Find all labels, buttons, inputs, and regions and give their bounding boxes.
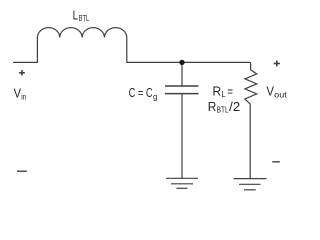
- minus sign (V_in polarity): [17, 170, 27, 172]
- svg-text:=: =: [227, 85, 233, 99]
- label R_BTL/2: [208, 100, 240, 115]
- svg-text:BTL: BTL: [217, 105, 229, 115]
- svg-text:g: g: [153, 92, 158, 102]
- plus sign (V_in polarity): [19, 70, 25, 75]
- svg-text:R: R: [208, 100, 217, 114]
- svg-text:in: in: [21, 91, 26, 101]
- inductor L_BTL: [37, 28, 126, 38]
- svg-text:out: out: [274, 89, 287, 99]
- svg-text:L: L: [221, 89, 225, 99]
- wire: resistor bottom to ground: [249, 104, 251, 178]
- plus sign (V_out polarity): [274, 61, 280, 67]
- svg-text:/2: /2: [229, 100, 240, 114]
- junction node (dot): [179, 60, 184, 65]
- svg-text:L: L: [73, 7, 79, 22]
- svg-text:BTL: BTL: [79, 13, 90, 23]
- wire: left input terminal to inductor: [13, 38, 37, 63]
- capacitor C bottom plate: [165, 93, 199, 95]
- wire: capacitor bottom plate to ground: [181, 94, 183, 179]
- capacitor C top plate: [165, 85, 199, 87]
- wire: top wire corner down to resistor: [250, 62, 252, 70]
- label V_out: [266, 84, 287, 100]
- wire: inductor right end down and across to resistor: [127, 38, 251, 63]
- label V_in: [14, 87, 27, 102]
- svg-text:R: R: [213, 85, 222, 99]
- resistor R_L zigzag: [245, 70, 257, 105]
- wire: capacitor branch from junction down to top plate: [181, 62, 183, 86]
- ground (right, under resistor): [234, 179, 267, 190]
- label R_L =: [213, 85, 234, 100]
- svg-text:C = C: C = C: [129, 86, 153, 100]
- ground (left, under capacitor): [166, 178, 198, 188]
- minus sign (V_out polarity): [272, 161, 280, 163]
- label L_BTL: [73, 7, 90, 23]
- label C = Cg: [129, 86, 158, 102]
- svg-text:V: V: [266, 84, 274, 99]
